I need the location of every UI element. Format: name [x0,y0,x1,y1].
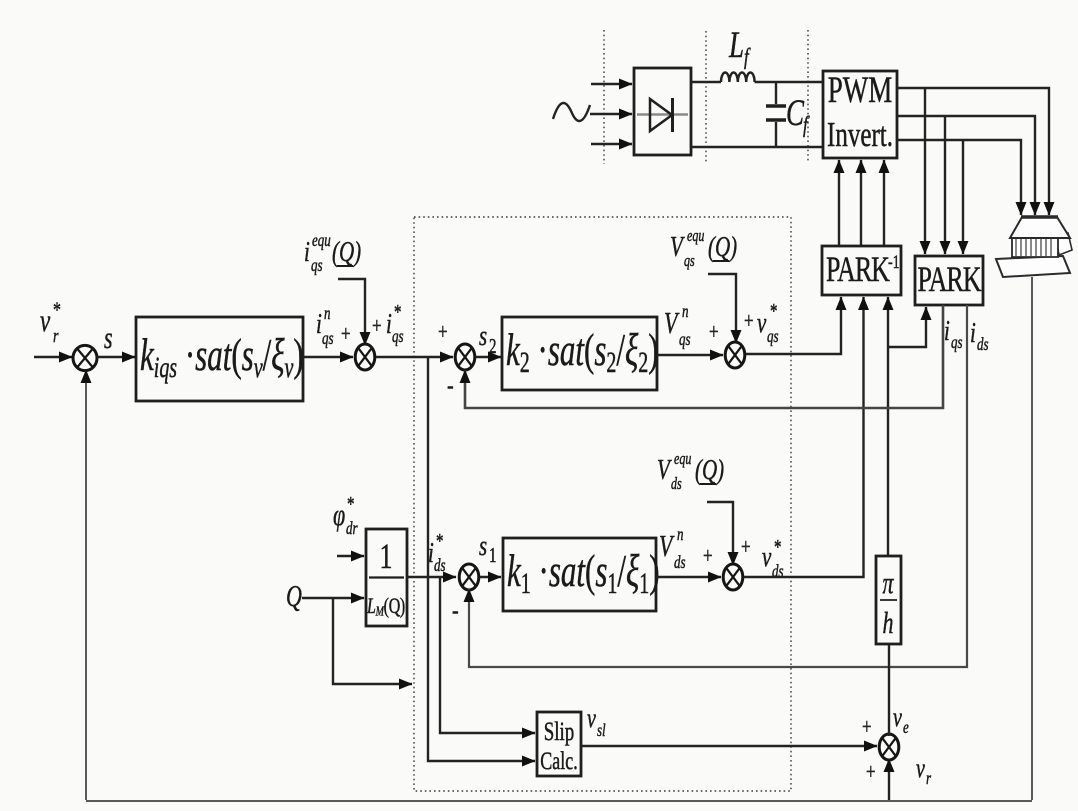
svg-text:(Q): (Q) [332,236,361,268]
label iqs_equ(Q) [304,231,361,275]
svg-text:V: V [657,454,672,486]
wire J2 to J3 [376,356,453,358]
svg-text:+: + [866,760,876,785]
wire phase 2 tap to PARK [944,116,946,254]
wire v_r into J6 [888,759,890,800]
svg-text:ds: ds [977,335,989,354]
svg-text:qs: qs [311,256,323,275]
wire ids* tap to slip calculator [440,577,535,733]
op block PARK [915,256,983,305]
svg-text:qs: qs [322,329,334,348]
node iqs measured [944,315,963,353]
wire inductor to inverter [755,81,823,83]
svg-text:r: r [926,769,932,788]
svg-text:n: n [677,525,684,544]
node vqs* [757,300,779,347]
node v_r feedback [916,754,932,788]
svg-text:s: s [479,320,487,352]
op block k2 sliding controller [502,317,659,390]
label Vqs_n [664,302,691,349]
svg-text:dr: dr [346,519,358,538]
svg-text:ds: ds [772,562,784,581]
wire vqs* to PARK-1 [746,297,841,354]
op block 1/LM(Q) [366,529,407,626]
wire PARK-1 output c to inverter [883,160,885,246]
wire PARK-1 output b to inverter [860,160,862,246]
svg-text:-: - [447,371,454,401]
node ids* [428,530,446,576]
svg-text:L: L [728,25,744,66]
svg-text:LM(Q): LM(Q) [366,595,405,619]
dotted separator line 2 [705,31,707,164]
svg-text:+: + [341,322,351,347]
node s2 [479,320,496,358]
svg-text:+: + [709,320,719,345]
AC source [553,103,590,121]
wire Q input [302,597,364,599]
svg-text:V: V [664,306,680,340]
wire phase 3 tap to PARK [962,140,964,254]
svg-text:+: + [741,535,751,560]
svg-text:i: i [944,315,950,347]
label phi_dr* [333,493,358,539]
dashed controller boundary box [414,217,791,791]
wire Q branch to controller boundary [333,598,412,684]
svg-text:π: π [882,566,894,600]
svg-text:*: * [347,493,354,516]
svg-text:i: i [316,308,322,340]
wire theta branch to PARK [888,307,926,347]
svg-text:qs: qs [679,330,691,349]
svg-text:v: v [40,302,51,337]
svg-text:qs: qs [684,252,695,270]
summing junction J5d [723,564,743,590]
svg-text:k1 ·sat(s1/ξ1): k1 ·sat(s1/ξ1) [507,546,660,600]
node vds* [762,536,784,582]
summing junction J2 [355,344,375,370]
svg-text:ds: ds [671,475,682,493]
wire speed feedback bottom rail [86,800,1032,802]
wire 1/LM to J4 [407,576,456,578]
summing junction J6 [879,734,899,760]
summing junction J4 [459,564,479,590]
wire J3 to k2 block [476,356,501,358]
svg-text:PARK: PARK [918,259,982,299]
wire AC phase b [590,113,632,115]
node iqs* [386,301,404,347]
wire motor speed output [1031,277,1033,800]
wire inverter phase 3 to motor [897,140,1021,215]
svg-text:k2 ·sat(s2/ξ2): k2 ·sat(s2/ξ2) [506,325,659,379]
node s1 [479,530,496,567]
wire slip output to J6 [581,745,877,747]
svg-text:*: * [53,299,61,323]
node v_e [893,703,909,737]
svg-text:s: s [479,530,487,562]
PWM inverter [823,70,897,158]
svg-text:+: + [744,309,754,334]
svg-text:equ: equ [312,231,331,250]
svg-text:equ: equ [674,450,691,468]
node ids measured [970,317,989,355]
svg-text:ds: ds [674,553,686,572]
svg-text:PWM: PWM [828,70,892,111]
op block speed sliding-mode controller kiqs [136,317,304,401]
dotted separator line 3 [807,30,809,163]
svg-text:qs: qs [392,327,404,346]
svg-text:-: - [452,596,459,626]
dotted separator line 1 [603,30,605,164]
svg-text:Slip: Slip [544,717,575,746]
wire J4 to k1 block [480,576,501,578]
svg-text:+: + [372,314,382,339]
svg-text:ds: ds [434,556,446,575]
svg-text:i: i [970,317,976,349]
wire J1 to speed controller [97,356,135,358]
svg-text:s: s [104,321,113,355]
op block slip calculator [537,712,581,776]
label Vds_n [659,525,686,572]
svg-text:Invert.: Invert. [827,115,893,154]
svg-text:(Q): (Q) [695,454,724,486]
summing junction J1 [73,345,97,370]
wire J6 to pi/h block [888,644,890,736]
wire k1 to J5d [656,576,721,578]
summing junction J5q [725,342,745,368]
inductor Lf [721,72,755,82]
label Vqs_equ(Q) [670,227,737,270]
svg-text:+: + [438,320,448,345]
op block PARK inverse [822,246,901,295]
svg-text:φ: φ [333,498,345,532]
wire vds* to PARK-1 [744,297,864,577]
capacitor Cf [766,82,786,147]
svg-text:C: C [786,93,804,134]
svg-text:*: * [436,530,443,553]
svg-text:+: + [703,544,713,569]
svg-text:e: e [903,718,909,737]
svg-text:i: i [386,308,392,340]
wire iqs* tap to slip calculator [428,357,535,761]
svg-text:PARK: PARK [826,249,890,289]
svg-text:equ: equ [687,227,704,245]
wire AC phase a [591,83,632,85]
wire phase 1 tap to PARK [924,88,926,254]
wire Vds_equ into J5d [707,502,733,565]
svg-text:v: v [893,703,902,733]
summing junction J3 [455,344,475,370]
svg-text:v: v [916,754,925,784]
svg-text:qs: qs [767,327,779,346]
svg-text:r: r [53,325,59,347]
svg-text:n: n [682,302,689,321]
wire PARK-1 output a to inverter [838,160,840,246]
svg-text:v: v [762,541,772,573]
wire speed feedback to J1 [85,370,87,800]
svg-text:sl: sl [597,721,606,740]
svg-text:*: * [394,301,401,324]
svg-text:-1: -1 [888,251,900,273]
svg-text:1: 1 [379,536,392,576]
wire DC bus top [691,81,721,83]
label Cf [786,93,810,138]
wire theta to PARK-1 [887,297,889,556]
motor (induction machine sketch) [996,217,1072,277]
wire ids feedback to J4 [469,305,967,667]
wire inverter phase 1 to motor [897,88,1049,215]
svg-text:(Q): (Q) [708,231,737,263]
svg-text:v: v [757,307,767,339]
svg-text:+: + [862,715,872,740]
wire iqs_equ into J2 [338,279,365,345]
label Vds_equ(Q) [657,450,724,493]
svg-text:2: 2 [489,335,496,358]
wire k2 to J5q [657,354,723,356]
wire Vqs_equ into J5q [708,274,736,343]
svg-text:V: V [670,231,685,263]
svg-text:*: * [770,300,777,323]
label Lf [728,25,751,70]
wire iqs feedback to J3 [465,305,943,408]
svg-text:Calc.: Calc. [540,747,577,774]
wire controller to J2 [303,356,353,358]
svg-text:i: i [304,236,310,268]
label iqs_n [316,304,334,348]
node v_sl [587,704,606,740]
svg-text:v: v [587,704,596,734]
wire AC phase c [591,143,632,145]
op block k1 sliding controller [503,538,660,611]
svg-text:qs: qs [951,333,963,352]
svg-text:1: 1 [489,544,496,567]
rectifier [634,68,691,155]
wire phi_dr* input [337,555,364,557]
wire DC bus bottom [691,146,823,148]
op block pi/h [876,556,901,644]
svg-text:n: n [324,304,331,323]
svg-text:Q: Q [286,579,302,613]
wire vr* to J1 [34,356,72,358]
svg-text:V: V [659,529,675,563]
node vr* input [40,299,61,347]
svg-text:h: h [883,606,894,640]
wire inverter phase 2 to motor [897,116,1035,215]
svg-text:*: * [774,536,781,559]
